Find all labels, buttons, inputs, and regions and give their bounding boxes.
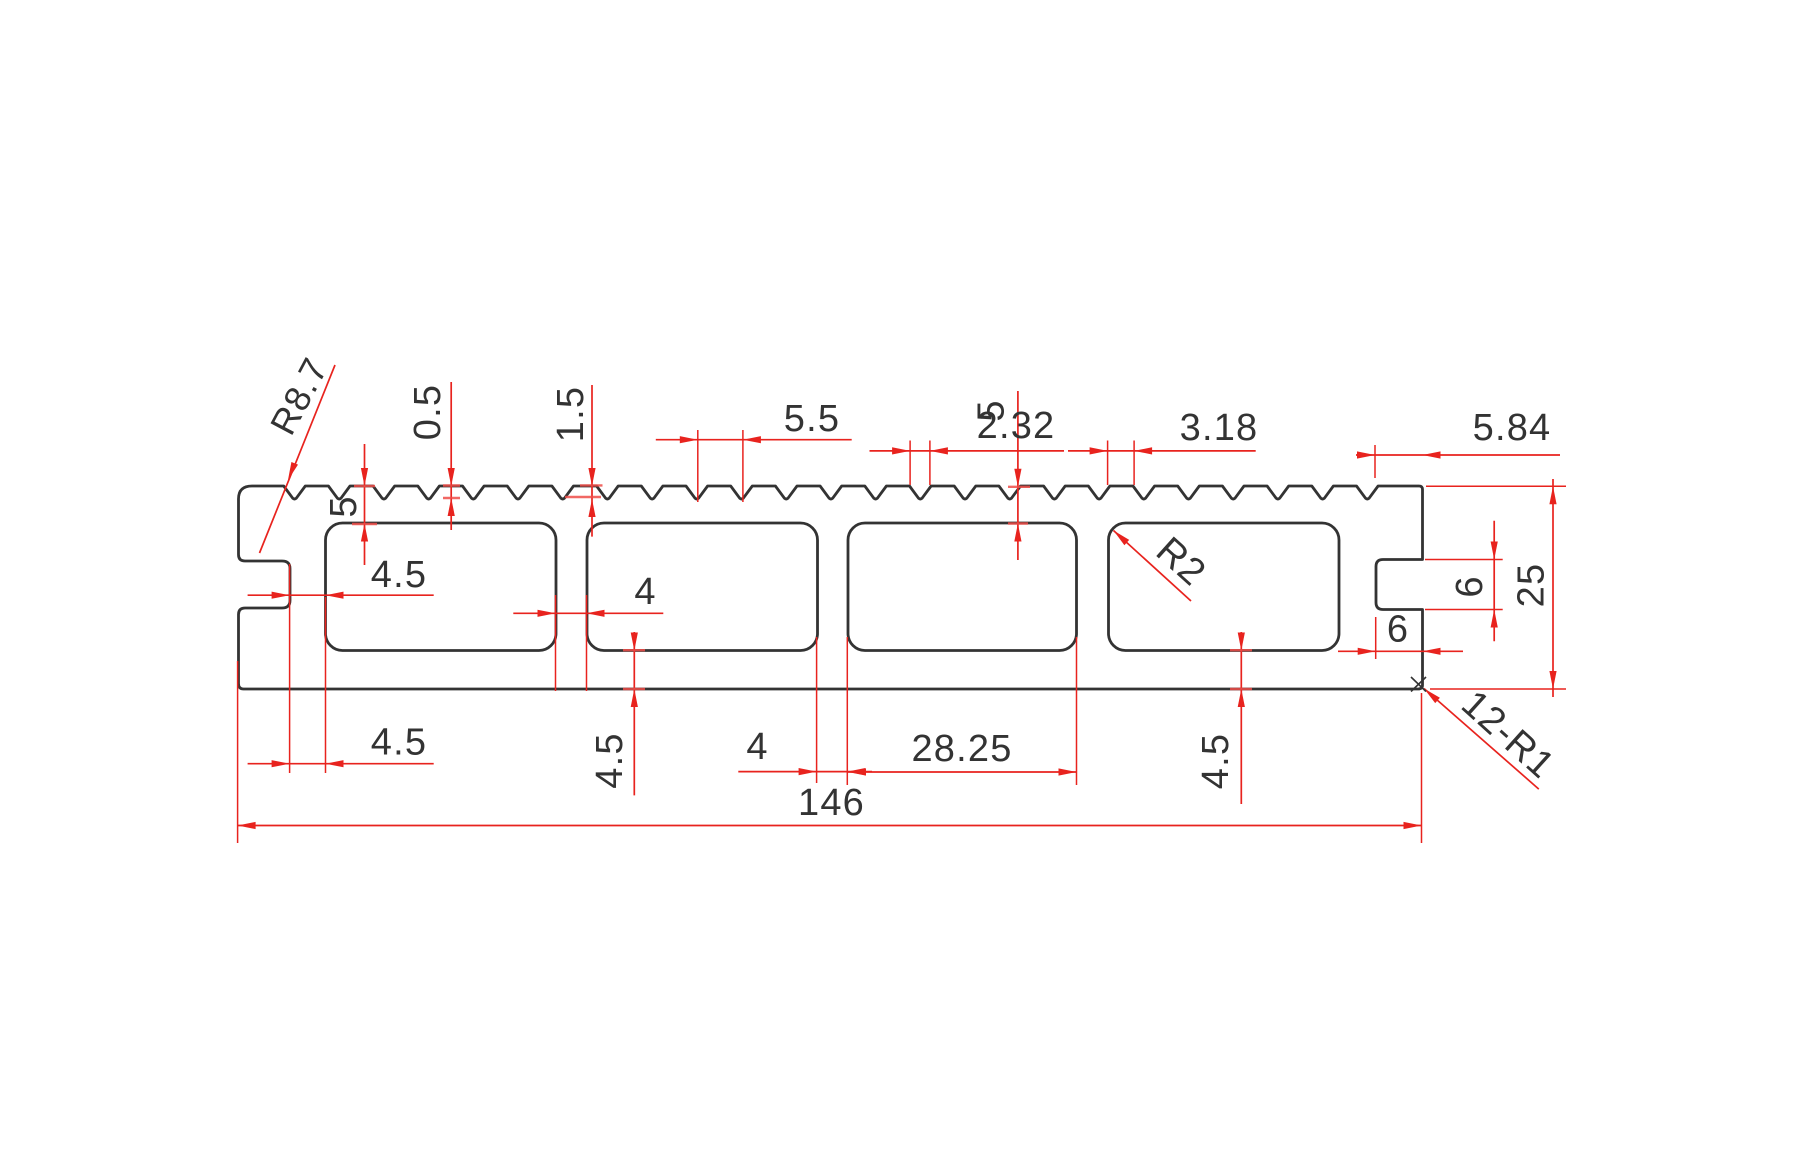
dimension 5.84 (right shoulder width) xyxy=(1356,407,1560,478)
svg-text:2.32: 2.32 xyxy=(977,405,1056,447)
dimension 4.5 (bottom wall under chamber 1) xyxy=(589,632,645,795)
svg-text:1.5: 1.5 xyxy=(550,386,592,442)
dimension 5 (left, top surface to chamber top) xyxy=(323,444,377,565)
dimension 6 (right groove height) xyxy=(1425,521,1503,641)
dimension 6 (right groove depth) xyxy=(1338,609,1463,660)
svg-text:4.5: 4.5 xyxy=(371,722,427,764)
dimension 4.5 (groove wall to chamber, upper) xyxy=(248,554,434,599)
dimension 4.5 (bottom wall under chamber 4) xyxy=(1195,632,1252,804)
svg-text:6: 6 xyxy=(1449,576,1491,597)
svg-text:4: 4 xyxy=(746,726,767,768)
svg-text:25: 25 xyxy=(1511,563,1553,608)
svg-text:5.5: 5.5 xyxy=(784,398,840,440)
dimension 2.32 (tooth flank) xyxy=(870,405,1065,485)
dimension 5.5 (tooth pitch) xyxy=(656,398,852,502)
dimension 4 (web between chambers 1 and 2) xyxy=(513,571,663,691)
dimension 146 (overall board width) xyxy=(238,661,1422,843)
svg-text:5: 5 xyxy=(323,496,365,517)
node hollow chamber 2 (rounded rectangle) xyxy=(587,523,818,651)
svg-text:5.84: 5.84 xyxy=(1473,407,1552,449)
node hollow chamber 3 (rounded rectangle) xyxy=(848,523,1077,651)
dimension 5 (middle, top surface to chamber top) xyxy=(971,391,1031,560)
svg-text:6: 6 xyxy=(1387,609,1408,651)
dimension 1.5 (tooth depth) xyxy=(550,385,603,537)
dimension 0.5 (serration) xyxy=(407,382,460,530)
wire extension lines (left groove wall and chamber 1 edge) xyxy=(290,564,326,773)
dimension 12-R1 leader (corner fillets) xyxy=(1411,677,1563,789)
dimension R2 leader (chamber corner radius) xyxy=(1114,529,1214,601)
dimension 4.5 (groove wall to chamber, lower) xyxy=(248,722,434,768)
dimension 3.18 (tooth flat) xyxy=(1068,407,1258,485)
dimension 25 (board thickness) xyxy=(1426,479,1566,697)
svg-text:28.25: 28.25 xyxy=(911,728,1012,770)
dimension 28.25 (chamber width) xyxy=(848,637,1077,785)
svg-text:4.5: 4.5 xyxy=(1195,733,1237,789)
wire board outer profile with serrated top, left clip groove, right clip groove xyxy=(239,486,1423,689)
svg-text:146: 146 xyxy=(798,782,865,824)
node hollow chamber 4 (rounded rectangle) xyxy=(1109,523,1340,651)
dimension 4 (web between chambers 2 and 3) xyxy=(738,637,872,785)
svg-text:4.5: 4.5 xyxy=(371,554,427,596)
svg-text:4.5: 4.5 xyxy=(589,732,631,788)
svg-text:4: 4 xyxy=(634,571,655,613)
dimension R8.7 leader (top-left corner radius) xyxy=(260,351,337,553)
svg-text:3.18: 3.18 xyxy=(1180,407,1259,449)
svg-text:0.5: 0.5 xyxy=(407,384,449,440)
node hollow chamber 1 (rounded rectangle) xyxy=(326,523,557,651)
